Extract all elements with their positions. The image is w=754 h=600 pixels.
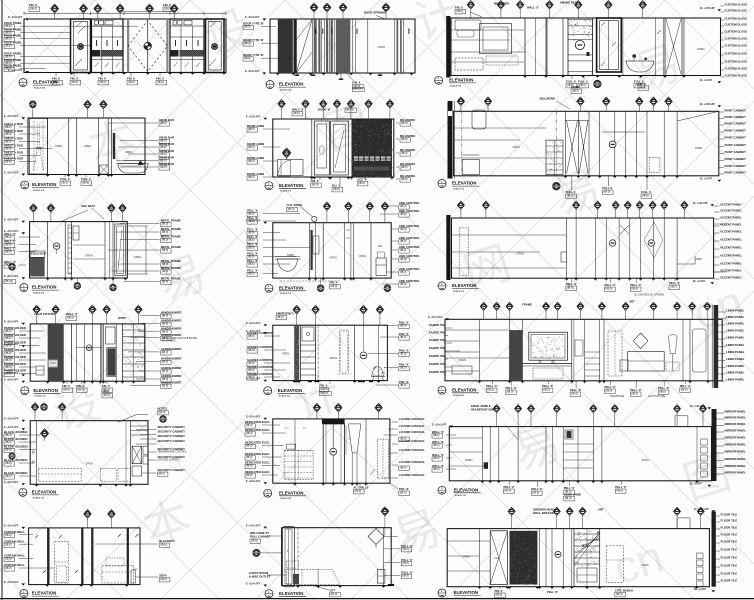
svg-text:MIRROR PANEL: MIRROR PANEL bbox=[725, 436, 747, 440]
svg-text:PELL 'X': PELL 'X' bbox=[547, 590, 558, 594]
elevation 3 title bbox=[435, 76, 443, 84]
elevation 2 top callouts bbox=[313, 12, 315, 20]
svg-text:WALL BRACKET: WALL BRACKET bbox=[533, 511, 556, 515]
svg-text:FABRIC PNL: FABRIC PNL bbox=[429, 338, 446, 342]
elevation 13 right cabinet bbox=[130, 421, 132, 485]
svg-text:MIRROR PANEL: MIRROR PANEL bbox=[725, 457, 747, 461]
elevation 12 top callouts bbox=[483, 310, 485, 319]
svg-text:PULL CABINET: PULL CABINET bbox=[250, 534, 271, 538]
elevation 17 left cabinet bbox=[283, 527, 295, 587]
svg-text:AC CONTROL BY OTHERS: AC CONTROL BY OTHERS bbox=[634, 294, 664, 297]
elevation 3 long leaders bbox=[451, 29, 524, 31]
elevation 4 title bbox=[21, 181, 29, 189]
elevation 9 title bbox=[438, 282, 446, 290]
svg-text:CUSTOM GLASS: CUSTOM GLASS bbox=[725, 23, 748, 27]
svg-text:CUSTOM GLASS: CUSTOM GLASS bbox=[725, 9, 748, 13]
svg-text:ACCENT PANEL: ACCENT PANEL bbox=[720, 209, 742, 213]
svg-text:MIRROR PANEL: MIRROR PANEL bbox=[725, 450, 747, 454]
elevation 6 cabinet dashed bbox=[646, 111, 648, 176]
elevation 15 bottom tags bbox=[509, 481, 511, 485]
elevation 3 top callouts bbox=[470, 9, 472, 18]
elevation 6 wardrobe grid bbox=[546, 140, 563, 174]
elevation 16 outline bbox=[29, 528, 140, 585]
svg-text:OPEN: OPEN bbox=[84, 144, 91, 148]
elevation 9 long leaders bbox=[452, 234, 567, 236]
svg-text:OPEN: OPEN bbox=[378, 45, 385, 49]
elevation 15 right column rects bbox=[701, 439, 708, 445]
svg-text:BLACKOUT: BLACKOUT bbox=[159, 539, 175, 543]
svg-text:OPEN: OPEN bbox=[641, 563, 648, 567]
elevation 7 shower seat dark bbox=[30, 257, 44, 276]
elevation 16 glass slashes bbox=[35, 535, 38, 538]
elevation 6 title bbox=[438, 180, 446, 188]
svg-text:E +10-6 AFF: E +10-6 AFF bbox=[246, 524, 261, 527]
elevation 7 shower wall bbox=[47, 222, 49, 278]
svg-text:SCALE 1/2: SCALE 1/2 bbox=[450, 84, 462, 87]
svg-text:E +10-6 AFF: E +10-6 AFF bbox=[4, 426, 19, 429]
elevation 7 outline bbox=[30, 222, 128, 278]
elevation 10 title bbox=[21, 387, 29, 395]
elevation 2 hatched panel bbox=[336, 19, 350, 73]
svg-text:ELEVATION: ELEVATION bbox=[279, 82, 303, 87]
elevation 18 shelf unit bbox=[574, 529, 600, 587]
svg-text:FLOOR TILE: FLOOR TILE bbox=[721, 526, 738, 530]
elevation 4 outline bbox=[28, 118, 145, 175]
svg-text:CUSTOM GLASS: CUSTOM GLASS bbox=[725, 37, 748, 41]
elevation 12 title bbox=[438, 386, 446, 394]
elevation 11 outline bbox=[273, 325, 388, 380]
svg-text:FLOOR TILE: FLOOR TILE bbox=[721, 540, 738, 544]
elevation 14 door head dark bbox=[322, 419, 345, 424]
elevation 8 title bbox=[265, 284, 273, 292]
elevation 1 center door bbox=[127, 19, 129, 73]
svg-text:FABRIC PNL: FABRIC PNL bbox=[429, 331, 446, 335]
elevation 16 dashed wardrobe bbox=[55, 542, 69, 583]
elevation 12 right panel bbox=[682, 319, 684, 381]
elevation 15 cut wall right bbox=[712, 409, 717, 481]
elevation 5 door 1 bbox=[314, 121, 329, 175]
elevation 6 right open section bbox=[676, 111, 678, 176]
elevation 9 right open bbox=[676, 218, 678, 278]
elevation 10 dark hatched panel bbox=[48, 324, 64, 381]
svg-text:LINEN PANEL: LINEN PANEL bbox=[726, 329, 745, 333]
elevation 17 title bbox=[265, 590, 273, 598]
elevation 16 dashed sofa bbox=[102, 566, 134, 584]
elevation 11 dotted column bbox=[294, 325, 299, 380]
svg-text:LOUVER CONCEAL: LOUVER CONCEAL bbox=[399, 417, 426, 421]
svg-text:E +10-6 AFF: E +10-6 AFF bbox=[246, 116, 261, 119]
svg-text:E +10-6 AFF: E +10-6 AFF bbox=[4, 525, 19, 528]
elevation 6 long leaders bbox=[454, 127, 546, 129]
elevation 7 title bbox=[20, 284, 28, 292]
svg-text:SCALE 1/2: SCALE 1/2 bbox=[280, 497, 292, 500]
svg-text:MIRROR PANEL: MIRROR PANEL bbox=[725, 429, 747, 433]
svg-text:ELEVATION: ELEVATION bbox=[279, 285, 303, 290]
svg-text:OPEN: OPEN bbox=[463, 555, 470, 559]
elevation 11 chair bbox=[372, 367, 384, 377]
svg-text:CUSTOM GLASS: CUSTOM GLASS bbox=[725, 60, 748, 64]
svg-text:SMOKE DET: SMOKE DET bbox=[560, 0, 577, 4]
elevation 3 x panel bbox=[665, 18, 682, 76]
elevation 4 top callouts bbox=[32, 108, 34, 118]
elevation 5 dark stone panel bbox=[352, 119, 393, 177]
svg-text:ACCENT PANEL: ACCENT PANEL bbox=[720, 254, 742, 258]
svg-text:DN CONTROL AND NCB BOARD: DN CONTROL AND NCB BOARD bbox=[162, 337, 197, 340]
elevation 7 bottom ring callouts bbox=[76, 278, 78, 282]
svg-text:DOOR 'B': DOOR 'B' bbox=[318, 107, 331, 111]
svg-text:LOUVER CONCEAL: LOUVER CONCEAL bbox=[399, 448, 426, 452]
elevation 13 top callouts bbox=[34, 411, 36, 421]
svg-text:PAINT CABINET: PAINT CABINET bbox=[725, 115, 747, 119]
svg-text:OPEN: OPEN bbox=[330, 356, 337, 360]
elevation 17 big diamond bbox=[368, 529, 384, 545]
svg-text:MIRROR PANEL: MIRROR PANEL bbox=[725, 422, 747, 426]
elevation 18 right column rects bbox=[697, 553, 704, 559]
elevation 18 outline bbox=[447, 529, 709, 587]
elevation 1 door E bbox=[206, 19, 225, 73]
svg-text:WTRF: WTRF bbox=[118, 316, 126, 320]
svg-text:FLOOR TILE: FLOOR TILE bbox=[721, 533, 738, 537]
svg-text:ACCENT PANEL: ACCENT PANEL bbox=[720, 223, 742, 227]
svg-text:EL +0 AFF: EL +0 AFF bbox=[693, 280, 706, 283]
elevation 17 outline bbox=[282, 528, 392, 586]
svg-text:E +10-6 AFF: E +10-6 AFF bbox=[245, 70, 260, 73]
svg-text:EL +100 AFF: EL +100 AFF bbox=[700, 7, 715, 10]
svg-text:DOOR OPENING: DOOR OPENING bbox=[364, 10, 386, 14]
elevation 17 circle callout left bbox=[253, 549, 260, 556]
svg-text:EL +0 AFF: EL +0 AFF bbox=[694, 588, 707, 591]
svg-text:LIGHT FIXTURE: LIGHT FIXTURE bbox=[34, 312, 55, 316]
elevation 4 bottom tags bbox=[64, 175, 66, 178]
svg-text:EL +0 AFF: EL +0 AFF bbox=[700, 178, 713, 181]
svg-text:ELEVATION: ELEVATION bbox=[452, 283, 476, 288]
svg-text:EL +100 AFF: EL +100 AFF bbox=[693, 202, 708, 205]
svg-text:PAINT CABINET: PAINT CABINET bbox=[725, 150, 747, 154]
svg-text:OPEN: OPEN bbox=[282, 352, 289, 356]
svg-text:LIGHTING CONTROL: LIGHTING CONTROL bbox=[158, 460, 181, 462]
svg-text:E +10-6 AFF: E +10-6 AFF bbox=[4, 418, 19, 421]
svg-text:OPEN: OPEN bbox=[517, 252, 524, 256]
svg-text:SCALE 1/2: SCALE 1/2 bbox=[280, 292, 292, 295]
svg-text:ELEVATION: ELEVATION bbox=[32, 490, 56, 495]
elevation 12 tall cabinet bbox=[571, 319, 573, 381]
elevation 13 roof slash bbox=[118, 414, 137, 422]
elevation 9 bottom tags bbox=[571, 278, 573, 282]
elevation 2 title bbox=[266, 81, 274, 89]
elevation 14 left closet bbox=[294, 419, 296, 483]
svg-text:SCALE 1/2: SCALE 1/2 bbox=[455, 494, 467, 497]
svg-text:MILLWORK: MILLWORK bbox=[540, 96, 555, 100]
elevation 14 right section bbox=[365, 419, 367, 483]
elevation 10 mirror cabinet bbox=[103, 324, 105, 381]
svg-text:PAINT CABINET: PAINT CABINET bbox=[725, 164, 747, 168]
svg-text:PAINT CABINET: PAINT CABINET bbox=[725, 143, 747, 147]
svg-text:E +10-6 AFF: E +10-6 AFF bbox=[8, 16, 23, 19]
svg-text:CUSTOM GLASS: CUSTOM GLASS bbox=[725, 44, 748, 48]
elevation 3 sofa and tv bbox=[480, 24, 512, 54]
elevation 12 outline bbox=[445, 319, 722, 381]
svg-text:ELEVATION: ELEVATION bbox=[32, 591, 56, 596]
elevation 10 bottom tags bbox=[66, 381, 68, 384]
svg-text:E +10-6 AFF: E +10-6 AFF bbox=[246, 582, 261, 585]
elevation 1 bottom tags bbox=[55, 73, 57, 77]
elevation 13 sofa dashed bbox=[38, 468, 81, 481]
elevation 13 left strip bbox=[36, 421, 38, 485]
svg-text:ACCENT PANEL: ACCENT PANEL bbox=[720, 238, 742, 242]
elevation 13 dashed cabinets bbox=[100, 468, 116, 481]
svg-text:LINEN PANEL: LINEN PANEL bbox=[726, 322, 745, 326]
elevation 15 outline bbox=[449, 427, 711, 481]
elevation 5 title bbox=[265, 182, 273, 190]
elevation 6 top callouts bbox=[460, 105, 462, 111]
svg-text:SCALE 1/2: SCALE 1/2 bbox=[34, 87, 46, 90]
svg-text:LINEN PANEL: LINEN PANEL bbox=[726, 378, 745, 382]
svg-text:CUSTOM GLASS: CUSTOM GLASS bbox=[725, 17, 748, 21]
svg-text:FABRIC PNL: FABRIC PNL bbox=[429, 346, 446, 350]
svg-text:MILLWORK: MILLWORK bbox=[494, 1, 509, 5]
elevation 6 mid panels bbox=[564, 111, 566, 176]
svg-text:DRESS: DRESS bbox=[494, 558, 501, 560]
elevation 16 top callouts bbox=[87, 518, 89, 528]
svg-text:MIRROR PANEL: MIRROR PANEL bbox=[725, 416, 747, 420]
svg-text:SCALE 1/2: SCALE 1/2 bbox=[453, 394, 465, 397]
svg-text:SCALE 1/2: SCALE 1/2 bbox=[280, 89, 292, 92]
svg-text:LINEN PANEL: LINEN PANEL bbox=[726, 309, 745, 313]
elevation 1 title bbox=[19, 79, 27, 87]
svg-text:TEMPERATURE CONTROL: TEMPERATURE CONTROL bbox=[158, 451, 188, 454]
svg-text:OPEN: OPEN bbox=[125, 150, 132, 154]
svg-text:PAINT CABINET: PAINT CABINET bbox=[725, 171, 747, 175]
svg-text:LINEN PANEL: LINEN PANEL bbox=[726, 371, 745, 375]
svg-text:FLOOR TILE: FLOOR TILE bbox=[721, 572, 738, 576]
svg-text:ACCENT PANEL: ACCENT PANEL bbox=[720, 216, 742, 220]
svg-text:ART: ART bbox=[629, 299, 635, 303]
elevation 2 right panels bbox=[352, 19, 354, 73]
svg-text:PAINT CABINET: PAINT CABINET bbox=[725, 109, 747, 113]
elevation 1 outline bbox=[24, 19, 226, 73]
svg-text:SECURITY CABINET: SECURITY CABINET bbox=[158, 434, 186, 438]
elevation 14 outline bbox=[273, 419, 390, 483]
svg-text:EL +100 AFF: EL +100 AFF bbox=[690, 405, 705, 408]
elevation 12 long leaders bbox=[445, 329, 509, 331]
elevation 12 dark hatch panel bbox=[510, 330, 523, 381]
elevation 10 minibar shelves bbox=[123, 324, 145, 381]
elevation 9 outline bbox=[452, 218, 714, 278]
svg-text:ELEVATION: ELEVATION bbox=[279, 183, 303, 188]
svg-text:E +10-6 AFF: E +10-6 AFF bbox=[4, 379, 19, 382]
svg-text:PAINT CABINET: PAINT CABINET bbox=[725, 129, 747, 133]
svg-text:EL +100 AFF: EL +100 AFF bbox=[700, 103, 715, 106]
elevation 5 left room bbox=[311, 119, 313, 177]
svg-text:E +10-6 AFF: E +10-6 AFF bbox=[4, 115, 19, 118]
elevation 14 double door bbox=[323, 424, 344, 483]
svg-text:ELEVATION: ELEVATION bbox=[279, 490, 303, 495]
elevation 15 mid panels bbox=[545, 427, 547, 481]
elevation 6 bottom tags bbox=[553, 182, 561, 190]
elevation 12 bed section bbox=[603, 319, 605, 381]
svg-text:LIGHT FIXTURE: LIGHT FIXTURE bbox=[648, 396, 666, 398]
svg-text:ACCENT PANEL: ACCENT PANEL bbox=[720, 203, 742, 207]
elevation 10 outline bbox=[30, 324, 145, 381]
elevation 6 closet section bbox=[614, 111, 616, 176]
svg-text:E +10-6 AFF: E +10-6 AFF bbox=[4, 171, 19, 174]
svg-text:SCALE 1/2: SCALE 1/2 bbox=[453, 290, 465, 293]
svg-text:SCALE 1/2: SCALE 1/2 bbox=[33, 189, 45, 192]
svg-text:SCALE 1/2: SCALE 1/2 bbox=[33, 292, 45, 295]
svg-text:E +10-6 AFF: E +10-6 AFF bbox=[246, 480, 261, 483]
svg-text:EMERGENCY: EMERGENCY bbox=[276, 311, 294, 315]
svg-text:E +10-6 AFF: E +10-6 AFF bbox=[4, 481, 19, 484]
svg-text:OPEN: OPEN bbox=[134, 255, 141, 259]
elevation 9 top callouts bbox=[460, 209, 462, 218]
elevation 2 x-brace panel bbox=[295, 19, 297, 73]
svg-text:FLOOR TILE: FLOOR TILE bbox=[721, 513, 738, 517]
svg-text:E +10-6 AFF: E +10-6 AFF bbox=[246, 416, 261, 419]
svg-text:ACCENT PANEL: ACCENT PANEL bbox=[720, 269, 742, 273]
elevation 7 glass door bbox=[112, 222, 114, 278]
svg-text:ELEVATION: ELEVATION bbox=[32, 182, 56, 187]
svg-text:WALL 'X': WALL 'X' bbox=[527, 5, 539, 9]
elevation 10 telephone box bbox=[49, 360, 58, 367]
elevation 3 bottom tags bbox=[571, 76, 573, 80]
svg-text:OPEN: OPEN bbox=[85, 254, 92, 258]
svg-text:CUSTOM GLASS: CUSTOM GLASS bbox=[725, 52, 748, 56]
svg-text:LINEN PANEL: LINEN PANEL bbox=[726, 364, 745, 368]
elevation 14 top callouts bbox=[316, 411, 318, 419]
svg-text:E +10-6 AFF: E +10-6 AFF bbox=[4, 275, 19, 278]
elevation 18 long leaders bbox=[447, 540, 490, 542]
svg-text:FLOOR TILE: FLOOR TILE bbox=[721, 548, 738, 552]
elevation 5 top callouts bbox=[281, 108, 283, 119]
svg-text:LINEN PANEL: LINEN PANEL bbox=[726, 336, 745, 340]
svg-text:E +10-6 AFF: E +10-6 AFF bbox=[246, 322, 261, 325]
svg-text:ELEVATION: ELEVATION bbox=[454, 590, 478, 595]
elevation 15 long leaders bbox=[449, 437, 482, 439]
svg-text:E +10-6 AFF: E +10-6 AFF bbox=[4, 219, 19, 222]
svg-text:SECURITY CABINET: SECURITY CABINET bbox=[158, 425, 186, 429]
elevation 7 tile strip bbox=[68, 225, 72, 274]
elevation 18 title bbox=[438, 589, 446, 597]
svg-text:FABRIC PNL: FABRIC PNL bbox=[429, 362, 446, 366]
svg-text:EL +0 AFF: EL +0 AFF bbox=[700, 79, 713, 82]
svg-text:CUSTOM GLASS: CUSTOM GLASS bbox=[725, 67, 748, 71]
svg-text:OPEN: OPEN bbox=[695, 146, 702, 150]
elevation 13 title bbox=[19, 488, 27, 496]
svg-text:ACCENT PANEL: ACCENT PANEL bbox=[720, 246, 742, 250]
svg-text:OPEN: OPEN bbox=[85, 462, 92, 466]
svg-text:SECURITY CABINET: SECURITY CABINET bbox=[158, 439, 186, 443]
elevation 3 cut wall bbox=[446, 16, 450, 78]
svg-text:ACCENT PANEL: ACCENT PANEL bbox=[720, 262, 742, 266]
svg-text:ELEVATION: ELEVATION bbox=[33, 388, 57, 393]
elevation 18 dark panel bbox=[510, 531, 538, 585]
elevation 1 cabinet B bbox=[92, 19, 124, 73]
elevation 3 bath area bbox=[622, 18, 624, 76]
elevation 8 top callouts bbox=[326, 210, 328, 223]
elevation 18 right step notch bbox=[677, 518, 690, 529]
svg-text:FABRIC PNL: FABRIC PNL bbox=[429, 354, 446, 358]
svg-text:LOUVER CONCEAL: LOUVER CONCEAL bbox=[399, 460, 426, 464]
elevation 9 closet panels bbox=[575, 218, 577, 278]
elevation 9 cut wall bbox=[446, 215, 450, 280]
svg-text:ELEVATION: ELEVATION bbox=[278, 388, 302, 393]
elevation 10 top callouts bbox=[36, 313, 38, 324]
svg-text:OPEN: OPEN bbox=[695, 257, 702, 261]
svg-text:FLOOR TILE: FLOOR TILE bbox=[721, 556, 738, 560]
elevation 3 right open bbox=[684, 18, 721, 76]
svg-text:EL +0 AFF: EL +0 AFF bbox=[690, 483, 703, 486]
elevation 1 cabinet D bbox=[170, 19, 204, 73]
elevation 5 outline bbox=[273, 119, 394, 177]
svg-text:PAINT CABINET: PAINT CABINET bbox=[725, 136, 747, 140]
elevation 5 door 2 mirror bbox=[331, 121, 349, 175]
svg-text:ART: ART bbox=[598, 507, 604, 511]
elevation 8 toilet section bbox=[370, 223, 372, 278]
elevation 6 outline bbox=[454, 111, 719, 176]
svg-text:LINEN PANEL: LINEN PANEL bbox=[726, 357, 745, 361]
svg-text:CUSTOM GLASS: CUSTOM GLASS bbox=[725, 3, 748, 7]
svg-text:LOUVER CONCEAL: LOUVER CONCEAL bbox=[399, 430, 426, 434]
svg-text:OPEN: OPEN bbox=[465, 458, 472, 462]
elevation 8 sink basin bbox=[278, 259, 298, 272]
svg-text:FLOOR TILE: FLOOR TILE bbox=[721, 519, 738, 523]
svg-text:LINEN PANEL: LINEN PANEL bbox=[726, 350, 745, 354]
svg-text:HEADER BEYOND: HEADER BEYOND bbox=[471, 407, 496, 411]
svg-text:E +10-6 AFF: E +10-6 AFF bbox=[432, 423, 447, 426]
svg-text:ELEVATION: ELEVATION bbox=[33, 80, 57, 85]
elevation 17 bottom cabinets dashed bbox=[287, 569, 319, 584]
svg-text:FRAME: FRAME bbox=[522, 302, 532, 306]
elevation 3 corner notch bbox=[455, 20, 481, 30]
elevation 11 top callouts bbox=[296, 313, 298, 325]
elevation 15 title bbox=[438, 486, 446, 494]
svg-text:ELEVATION: ELEVATION bbox=[32, 285, 56, 290]
elevation 8 mirror column bbox=[308, 223, 310, 278]
svg-text:FIN. X: FIN. X bbox=[319, 383, 327, 387]
elevation 2 dark panel bbox=[278, 19, 293, 73]
svg-text:MIRROR PANEL: MIRROR PANEL bbox=[725, 471, 747, 475]
svg-text:OPEN: OPEN bbox=[330, 256, 337, 260]
elevation 14 exhaust cone bbox=[348, 424, 361, 453]
elevation 3 doors mid bbox=[525, 18, 546, 76]
svg-text:BY OTHERS: BY OTHERS bbox=[162, 341, 176, 343]
elevation 16 wall strips bbox=[47, 528, 49, 585]
svg-text:ACCENT PANEL: ACCENT PANEL bbox=[720, 230, 742, 234]
svg-text:OPEN: OPEN bbox=[641, 458, 648, 462]
elevation 18 top callouts bbox=[511, 515, 513, 529]
svg-text:MIRROR PANEL: MIRROR PANEL bbox=[725, 464, 747, 468]
svg-text:TELEPHONE: TELEPHONE bbox=[610, 396, 624, 398]
svg-text:LOUVER CONCEAL: LOUVER CONCEAL bbox=[399, 424, 426, 428]
svg-text:MIRROR PANEL: MIRROR PANEL bbox=[725, 410, 747, 414]
elevation 7 top callouts bbox=[32, 212, 34, 222]
svg-text:OPEN: OPEN bbox=[55, 144, 62, 148]
svg-text:FABRIC PNL: FABRIC PNL bbox=[429, 370, 446, 374]
svg-text:MIRROR PANEL: MIRROR PANEL bbox=[725, 443, 747, 447]
elevation 12 vanity mirror bbox=[529, 332, 568, 360]
elevation 11 shelf tower bbox=[301, 325, 316, 380]
elevation 6 cut wall bbox=[448, 101, 453, 179]
elevation 2 outline bbox=[270, 19, 415, 73]
elevation 17 top callout bbox=[384, 515, 386, 528]
elevation 4 small x corner bbox=[100, 165, 109, 174]
svg-text:E +10-6 AFF: E +10-6 AFF bbox=[428, 316, 443, 319]
elevation 3 glass door bbox=[597, 18, 622, 72]
svg-text:PAINT CABINET: PAINT CABINET bbox=[725, 157, 747, 161]
elevation 2 bottom tags bbox=[296, 73, 298, 75]
svg-text:ELEVATION: ELEVATION bbox=[454, 487, 478, 492]
elevation 16 title bbox=[20, 590, 28, 598]
